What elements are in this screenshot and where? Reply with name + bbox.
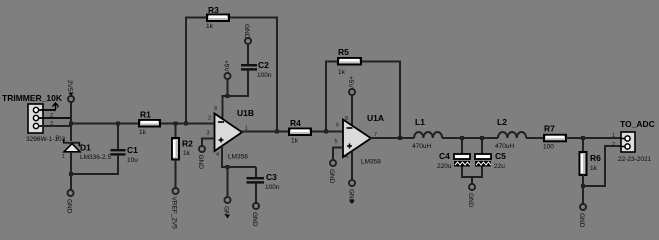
svg-text:1: 1 — [612, 133, 615, 139]
wire U1B non-inverting input — [202, 139, 215, 147]
svg-text:2: 2 — [56, 135, 59, 141]
svg-text:C4: C4 — [439, 151, 450, 161]
wire C4/C5 bottom join — [462, 176, 482, 178]
svg-text:3: 3 — [207, 131, 210, 137]
junction (feedback riser) — [184, 122, 188, 126]
wire D1 to C1 bottom — [70, 173, 119, 175]
wire L1 to L2 — [442, 137, 498, 139]
wire R3 top run — [185, 17, 278, 19]
svg-text:LM358: LM358 — [228, 154, 248, 161]
junction (output node) — [275, 130, 279, 134]
capacitor C4 (polarized) — [437, 138, 470, 178]
svg-text:TO_ADC: TO_ADC — [620, 119, 655, 129]
junction (R6 bottom) — [581, 184, 585, 188]
resistor R4 — [289, 118, 311, 145]
port +5V (U1A supply) — [347, 76, 355, 95]
resistor R1 — [139, 110, 160, 137]
ground port (below D1) — [66, 190, 74, 214]
svg-text:U1A: U1A — [367, 113, 384, 123]
svg-text:L2: L2 — [497, 117, 507, 127]
svg-text:TRIMMER_10K: TRIMMER_10K — [2, 93, 63, 103]
svg-text:1: 1 — [62, 154, 65, 160]
wire trimmer port to D1 — [70, 102, 72, 141]
svg-text:GND: GND — [467, 193, 474, 208]
svg-text:GND: GND — [197, 155, 204, 170]
svg-text:470uH: 470uH — [412, 143, 431, 150]
svg-text:2V5: 2V5 — [66, 80, 73, 92]
svg-text:100n: 100n — [257, 72, 272, 79]
wire L2 to R7 — [526, 137, 544, 139]
svg-text:R2: R2 — [182, 139, 193, 149]
svg-text:3296W-1-103: 3296W-1-103 — [26, 136, 66, 143]
svg-text:R1: R1 — [140, 110, 151, 120]
wire pin2 return run — [583, 146, 621, 186]
svg-text:8: 8 — [214, 106, 217, 112]
svg-text:+5V: +5V — [347, 76, 354, 88]
wire R7 to connector pin 1 — [566, 137, 621, 139]
junction (supply / C2) — [226, 94, 230, 98]
wire U1B pin 4 — [221, 146, 223, 168]
wire U1A pin 4 — [351, 151, 353, 180]
wire down to supply port — [227, 167, 229, 197]
svg-text:3: 3 — [50, 121, 53, 127]
wire GND drop (R6) — [582, 186, 584, 204]
svg-text:2: 2 — [612, 142, 615, 148]
ground port (above C2) — [243, 24, 251, 44]
ground port (C3 bottom) — [251, 203, 259, 227]
ground port (U1A pin 4) — [348, 180, 356, 204]
wire R5 top run — [325, 61, 401, 63]
resistor R2 — [172, 124, 193, 189]
resistor R6 — [580, 138, 602, 187]
svg-text:D1: D1 — [80, 143, 91, 153]
op-amp U1B — [207, 108, 255, 161]
capacitor C3 — [247, 167, 280, 203]
wire main net (trimmer to U1B inverting input) — [70, 123, 215, 125]
wire pin4 to C3 run — [221, 166, 256, 168]
junction (trimmer tap) — [69, 122, 73, 126]
wire U1A output to L1 — [370, 137, 414, 139]
junction (C4 tap) — [460, 136, 464, 140]
wire U1A pin 8 — [351, 95, 353, 126]
port GND (U1B pin4) — [223, 197, 231, 219]
svg-text:VREF_2V5: VREF_2V5 — [171, 197, 178, 230]
svg-text:1: 1 — [56, 104, 59, 110]
svg-text:C3: C3 — [266, 172, 277, 182]
wire R3 feedback right riser — [276, 18, 278, 133]
port 2V5 (trimmer top) — [66, 80, 74, 102]
svg-text:1k: 1k — [206, 23, 214, 30]
wire C2 bottom run — [222, 95, 249, 97]
wire U1B pin 8 — [222, 96, 224, 121]
svg-text:5: 5 — [335, 139, 338, 145]
svg-text:C1: C1 — [127, 145, 138, 155]
resistor R5 — [338, 47, 361, 76]
svg-text:R4: R4 — [290, 118, 301, 128]
svg-text:C2: C2 — [258, 60, 269, 70]
op-amp U1A — [335, 113, 385, 166]
wire U1A non-inverting input — [333, 148, 343, 161]
svg-text:2: 2 — [50, 113, 53, 119]
svg-text:1k: 1k — [291, 138, 299, 145]
svg-text:2: 2 — [208, 116, 211, 122]
junction (pin4 node) — [226, 165, 230, 169]
ground port (U1B + input) — [197, 146, 205, 169]
trimmer RV1 TRIMMER_10K — [2, 93, 71, 143]
junction (R2 tap) — [174, 122, 178, 126]
svg-text:GND: GND — [66, 199, 73, 214]
svg-text:220u: 220u — [437, 163, 452, 170]
svg-text:R7: R7 — [544, 124, 555, 134]
ground port (R6 bottom) — [578, 204, 586, 228]
svg-text:LM336-2.5: LM336-2.5 — [80, 154, 111, 161]
svg-text:GND: GND — [251, 212, 258, 227]
port VREF (below R2) — [171, 188, 179, 229]
wire R3 feedback left riser — [185, 18, 187, 125]
junction (R6 tap) — [581, 136, 585, 140]
junction (D1 anode node) — [69, 172, 73, 176]
svg-text:100n: 100n — [265, 184, 280, 191]
svg-text:100: 100 — [543, 144, 554, 151]
resistor R7 — [543, 124, 566, 151]
wire GND drop — [471, 177, 473, 184]
wire supply riser to pin 8 — [227, 79, 229, 96]
svg-text:1k: 1k — [183, 150, 191, 157]
svg-text:22u: 22u — [494, 163, 505, 170]
inductor L2 — [495, 117, 526, 150]
junction (U1A output node) — [398, 136, 402, 140]
ground port (U1A + input) — [328, 160, 336, 184]
svg-text:U1B: U1B — [237, 108, 254, 118]
svg-text:R5: R5 — [338, 47, 349, 57]
svg-text:GND: GND — [578, 213, 585, 228]
wire R5 feedback left riser — [325, 62, 327, 132]
wire U1B output to U1A input — [241, 131, 343, 133]
capacitor C5 (polarized) — [475, 138, 506, 178]
junction (C1 top) — [116, 122, 120, 126]
svg-text:1k: 1k — [590, 165, 598, 172]
resistor R3 — [206, 5, 229, 30]
svg-text:C5: C5 — [495, 151, 506, 161]
svg-text:470uH: 470uH — [495, 143, 514, 150]
svg-text:GND: GND — [328, 169, 335, 184]
svg-text:4: 4 — [216, 152, 219, 158]
svg-text:L1: L1 — [415, 117, 425, 127]
inductor L1 — [412, 117, 442, 150]
svg-text:1k: 1k — [338, 69, 346, 76]
svg-text:GND: GND — [243, 24, 250, 39]
svg-text:+5V: +5V — [223, 60, 230, 72]
junction (U1A inverting node) — [324, 130, 328, 134]
ground port (C4/C5) — [467, 184, 475, 208]
diode D1 LM336-2.5 — [56, 135, 111, 161]
svg-text:4: 4 — [345, 154, 348, 160]
svg-text:LM358: LM358 — [361, 159, 381, 166]
svg-text:R6: R6 — [590, 153, 601, 163]
svg-text:6: 6 — [336, 123, 339, 129]
svg-text:1k: 1k — [139, 129, 147, 136]
capacitor C1 — [111, 124, 139, 176]
port +5V (U1B supply) — [223, 60, 231, 79]
svg-text:22-23-2021: 22-23-2021 — [618, 156, 652, 163]
svg-text:10u: 10u — [127, 157, 138, 164]
junction (C5 tap) — [480, 136, 484, 140]
wire R5 feedback right riser — [399, 62, 401, 139]
connector J1 TO_ADC — [612, 119, 655, 163]
wire D1 anode down — [70, 152, 72, 190]
capacitor C2 — [241, 44, 272, 97]
